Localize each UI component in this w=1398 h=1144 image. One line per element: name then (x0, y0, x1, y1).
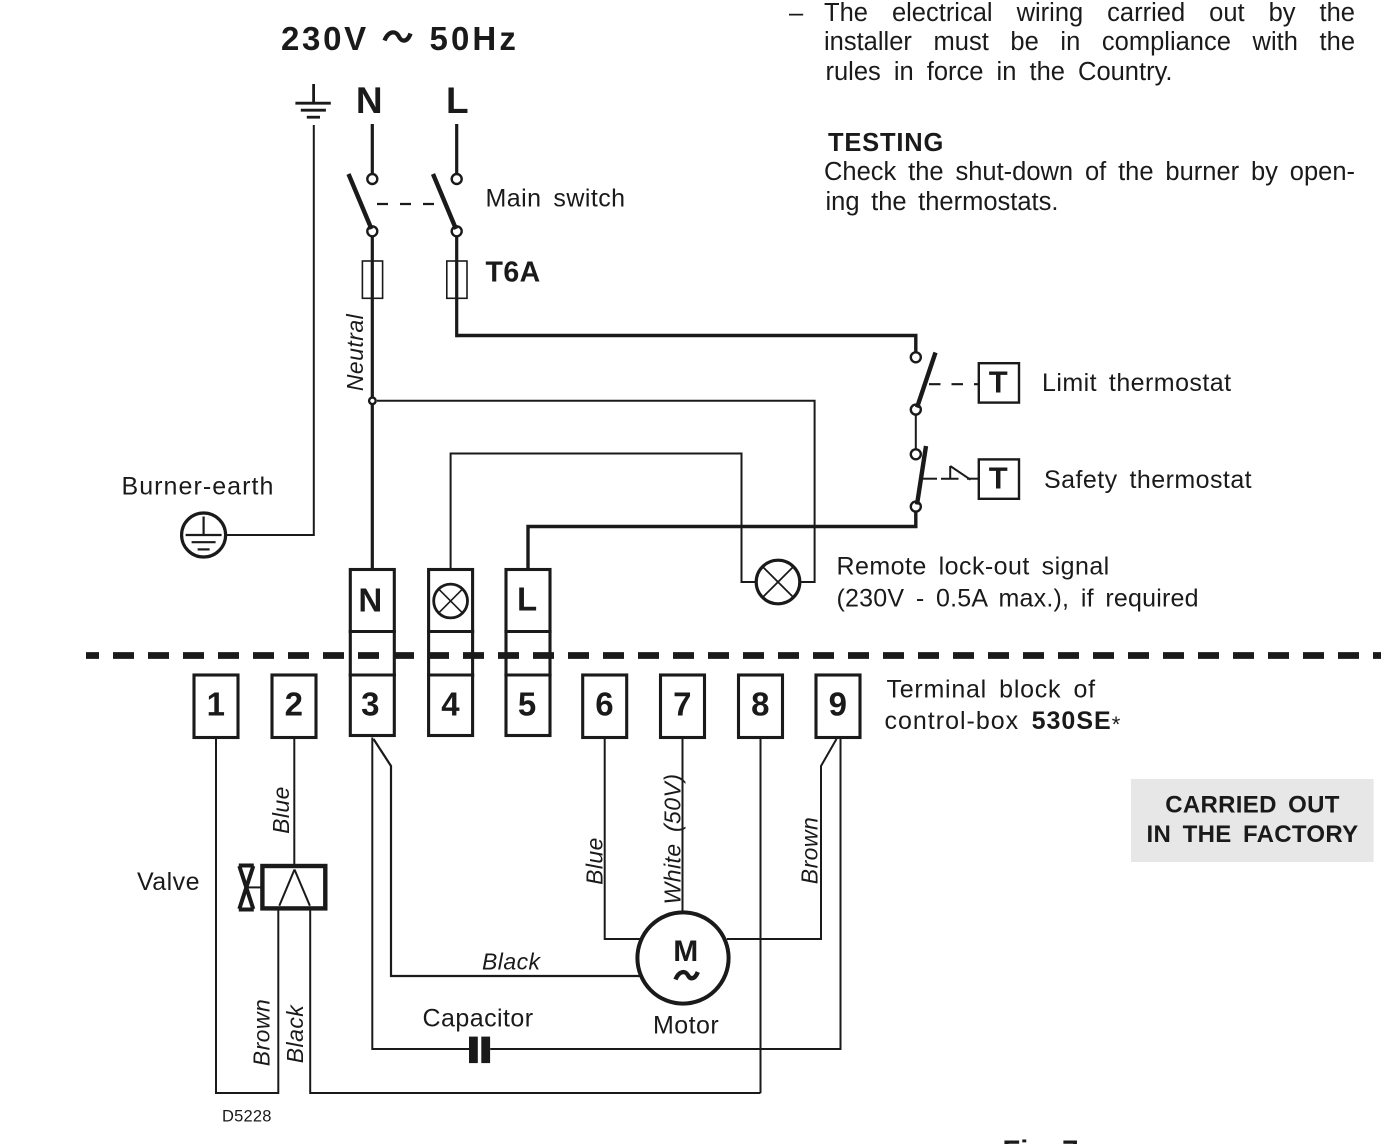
valve solenoid coil (262, 866, 325, 908)
wire L mid (455, 237, 458, 338)
svg-text:CARRIED OUT: CARRIED OUT (1165, 791, 1340, 818)
terminal box 2 (272, 675, 316, 738)
svg-text:L: L (446, 80, 469, 121)
wire between thermostats (915, 415, 917, 450)
svg-text:D5228: D5228 (222, 1108, 272, 1126)
svg-text:(230V - 0.5A max.), if require: (230V - 0.5A max.), if required (837, 585, 1199, 613)
motor (637, 912, 728, 1003)
title 230V ~ 50Hz (281, 20, 519, 57)
svg-text:7: 7 (673, 685, 692, 722)
wire terminal 6 blue to motor (605, 738, 642, 940)
svg-text:Burner-earth: Burner-earth (122, 473, 275, 501)
wire N mid (371, 237, 374, 570)
terminal box 1 (194, 675, 238, 738)
svg-text:Main switch: Main switch (486, 185, 626, 213)
main switch link dashed (377, 203, 447, 205)
right column paragraph (789, 1, 803, 27)
svg-text:T: T (989, 461, 1008, 496)
svg-text:6: 6 (595, 685, 614, 722)
main switch pole L (452, 174, 462, 184)
svg-text:Brown: Brown (797, 817, 823, 884)
wire terminal 9 to capacitor (490, 738, 840, 1050)
svg-text:4: 4 (441, 685, 460, 722)
terminal box 7 (661, 675, 705, 738)
svg-text:IN THE FACTORY: IN THE FACTORY (1147, 821, 1359, 848)
wire L to thermostats (457, 336, 916, 352)
burner-earth symbol (182, 513, 226, 557)
svg-text:N: N (356, 80, 383, 121)
svg-text:N: N (358, 582, 382, 619)
limit thermostat dashed link (929, 383, 979, 385)
limit thermostat switch (911, 352, 921, 362)
supply ground symbol (295, 84, 330, 117)
capacitor plates (469, 1037, 478, 1064)
svg-text:5: 5 (518, 685, 537, 722)
svg-text:Black: Black (482, 948, 542, 974)
title tilde (385, 32, 411, 40)
svg-text:50Hz: 50Hz (430, 20, 519, 57)
terminal box 8 (739, 675, 783, 738)
svg-text:Fig. 7: Fig. 7 (1003, 1136, 1079, 1144)
svg-text:T6A: T6A (486, 257, 541, 289)
wire L top (455, 124, 458, 173)
svg-text:Valve: Valve (137, 868, 200, 896)
svg-text:Terminal block of: Terminal block of (887, 676, 1096, 704)
svg-text:Remote lock-out signal: Remote lock-out signal (837, 553, 1110, 581)
wire safety out to terminal L (528, 512, 916, 570)
wire neutral to lock-out lamp (377, 401, 815, 582)
svg-text:Motor: Motor (653, 1012, 719, 1040)
limit thermostat T box (979, 363, 1019, 402)
safety thermostat reset symbol (922, 466, 978, 480)
terminal column 4 (lamp) (429, 570, 473, 736)
wire N top (371, 124, 374, 173)
svg-text:Capacitor: Capacitor (423, 1005, 534, 1033)
earth wire (227, 125, 314, 535)
main switch pole N (367, 174, 377, 184)
motor tilde (676, 972, 698, 980)
svg-text:Safety thermostat: Safety thermostat (1044, 466, 1252, 494)
wire terminal 2 to valve blue (293, 738, 295, 867)
fuse L (447, 261, 467, 298)
svg-text:Neutral: Neutral (342, 313, 368, 391)
svg-text:9: 9 (829, 685, 848, 722)
fuse N (362, 261, 382, 298)
svg-text:T: T (989, 365, 1008, 400)
wire terminal 3 black to motor (374, 739, 641, 976)
junction node on neutral (369, 398, 376, 405)
terminal box 9 (816, 675, 860, 738)
svg-text:Black: Black (282, 1004, 308, 1064)
wire terminal 8 down (760, 738, 762, 1094)
svg-text:230V: 230V (281, 20, 369, 57)
wire valve black to terminal 8 (310, 908, 760, 1093)
svg-text:8: 8 (751, 685, 770, 722)
valve body (hourglass) (239, 866, 254, 910)
svg-text:Blue: Blue (582, 837, 608, 885)
svg-text:L: L (517, 581, 538, 618)
svg-text:M: M (673, 935, 698, 968)
svg-text:Limit thermostat: Limit thermostat (1042, 369, 1232, 397)
terminal column L-5 (506, 570, 550, 736)
carried out in the factory box (1131, 779, 1374, 862)
wire terminal 3 to capacitor (372, 738, 469, 1050)
svg-text:White (50V): White (50V) (660, 774, 686, 905)
svg-text:1: 1 (207, 685, 226, 722)
lamp in terminal 4 (434, 584, 468, 618)
safety thermostat T box (979, 459, 1019, 498)
valve stem (247, 886, 262, 888)
safety thermostat switch (911, 449, 921, 459)
svg-text:3: 3 (361, 685, 380, 722)
svg-text:Blue: Blue (268, 786, 294, 834)
separator dashed line (86, 652, 1381, 659)
svg-text:Brown: Brown (249, 999, 275, 1066)
wire terminal 4 to lock-out lamp (451, 454, 755, 583)
wire terminal 9 brown to motor (727, 739, 837, 939)
svg-text:control-box 530SE*: control-box 530SE* (885, 707, 1122, 737)
wire terminal 7 white to motor (682, 738, 684, 912)
terminal box 6 (583, 675, 627, 738)
wire terminal 1 to valve brown (216, 738, 278, 1094)
remote lock-out lamp (756, 560, 800, 604)
svg-text:2: 2 (285, 685, 304, 722)
terminal column N-3 (350, 570, 394, 736)
